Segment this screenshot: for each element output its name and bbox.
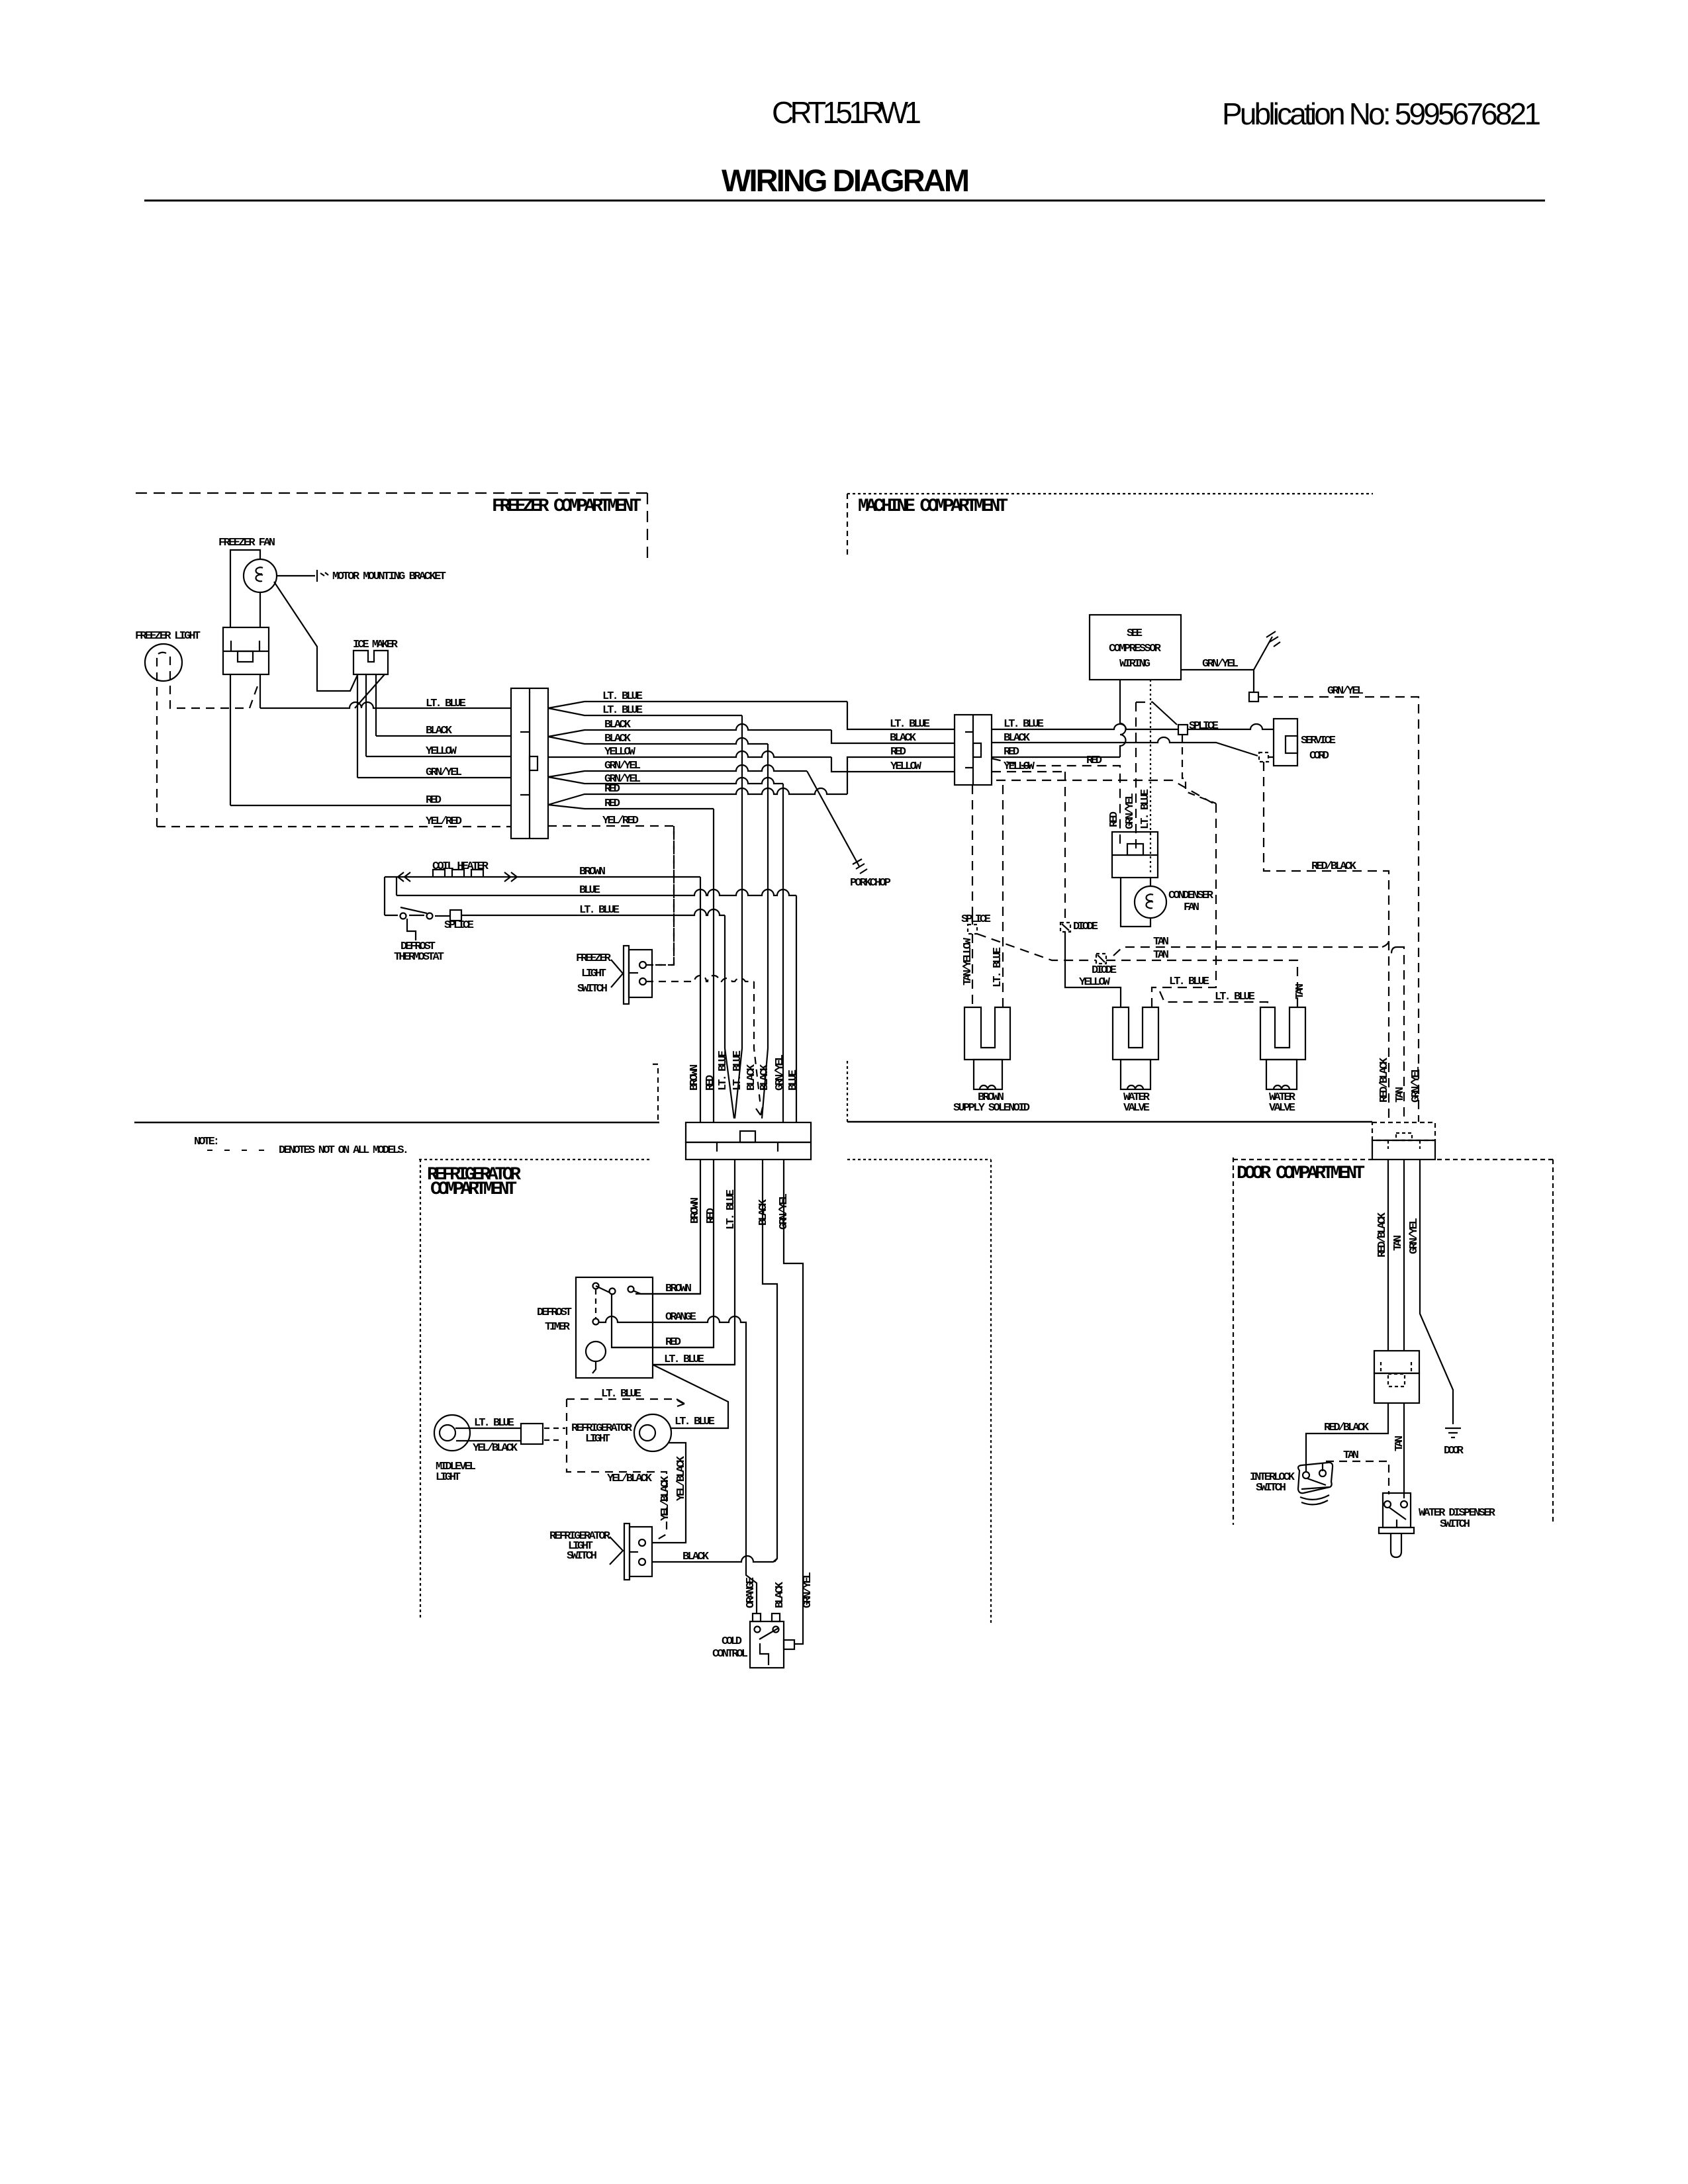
trunk TAN door	[1403, 1160, 1405, 1351]
trunk GRN/YEL vertical	[782, 784, 784, 1122]
trunk BROWN below J2	[635, 1160, 700, 1294]
svg-text:TAN: TAN	[1393, 1435, 1406, 1451]
coil heater element humps	[433, 870, 483, 877]
trunk RED below J2	[612, 1160, 714, 1347]
interlock switch body	[1298, 1463, 1333, 1493]
wire BLACK freezer	[376, 735, 511, 737]
freezer fan motor outline	[230, 550, 260, 627]
dashed tan/yellow from connector	[972, 785, 973, 925]
defrost timer box	[576, 1277, 653, 1378]
freezer light switch terminals	[639, 962, 646, 968]
machine compartment left lower stub	[847, 1061, 848, 1122]
dashed lt blue trunk to valve1	[1152, 803, 1216, 1007]
trunk LT.BLUE b vertical	[735, 715, 742, 1118]
wire YELLOW diode branch	[1064, 772, 1066, 921]
cold control box	[750, 1621, 784, 1668]
wire yellow below diode to valve	[1065, 932, 1121, 1007]
svg-text:RED/BLACK: RED/BLACK	[1324, 1422, 1370, 1434]
freezer light switch pointer	[611, 960, 623, 987]
freezer light lead yel/red upper	[170, 657, 258, 708]
dashed not-on-all-models outline	[567, 1399, 667, 1541]
water valve 1 body	[1113, 1007, 1158, 1060]
porkchop ground hash marks	[853, 859, 867, 874]
title rule	[144, 200, 1545, 202]
freezer light bulb circle	[145, 644, 182, 681]
wire GRN/YEL freezer	[357, 777, 511, 778]
freezer compartment bottom solid line	[134, 1122, 659, 1124]
cold control contacts	[755, 1627, 761, 1633]
grn/yel splice drop	[1253, 670, 1254, 692]
motor mounting bracket hash marks	[320, 572, 328, 576]
midlevel light	[434, 1415, 470, 1451]
dashed GRN/YEL compressor	[1136, 702, 1152, 852]
ice maker pin 3	[375, 674, 377, 736]
wire GRN/YEL dashed to door	[1258, 697, 1419, 1122]
wire step YELLOW freezer to machine	[831, 757, 955, 772]
door compartment top border right segment	[1437, 1159, 1553, 1160]
splice tan/yellow square	[968, 925, 977, 934]
door lower connector	[1374, 1351, 1419, 1373]
wire LT.BLUE machine	[992, 724, 1274, 729]
freezer compartment right border stub	[647, 493, 648, 560]
svg-text:SWITCH: SWITCH	[1256, 1482, 1286, 1494]
splice square grn/yel	[1249, 692, 1258, 702]
refrigerator compartment left border	[420, 1160, 421, 1619]
refrigerator compartment right border	[990, 1160, 992, 1623]
water dispenser switch body	[1383, 1493, 1411, 1527]
wire YEL/RED dashed to connector	[157, 826, 511, 827]
refrigerator compartment top border right segment	[847, 1159, 991, 1160]
trunk BLUE vertical	[796, 895, 797, 1122]
splice diagonal	[1152, 702, 1177, 725]
trunk GRN/YEL below J2 with jog	[784, 1160, 803, 1644]
door compartment left border	[1233, 1158, 1234, 1525]
door ground symbol	[1445, 1428, 1461, 1437]
wire BLUE	[397, 889, 796, 895]
door compartment right border	[1552, 1160, 1554, 1522]
trunk RED vertical	[713, 809, 714, 1122]
trunk RED/BLACK door	[1387, 1160, 1389, 1351]
coil heater chevrons left	[398, 872, 410, 882]
wire LT. BLUE freezer	[260, 702, 511, 708]
connector J1 body	[511, 688, 548, 839]
machine compartment top border	[847, 493, 1373, 494]
freezer light lead yel/red lower	[156, 658, 158, 827]
wire step BLACK freezer to machine	[831, 730, 955, 743]
trunk LT.BLUE below J2	[653, 1160, 735, 1365]
dashed lt blue from connector	[996, 780, 1213, 803]
compressor relay box	[1112, 832, 1158, 878]
wire RED/BLACK to interlock	[1306, 1403, 1388, 1471]
cold control capillary	[760, 1643, 769, 1665]
freezer light switch lead top	[646, 964, 673, 966]
dashed lt blue branch to valve2	[1160, 991, 1268, 1007]
freezer light switch plate	[624, 946, 629, 1004]
refrigerator light switch plate	[624, 1524, 630, 1580]
coil heater wire BROWN	[385, 877, 700, 915]
svg-text:DOOR: DOOR	[1444, 1445, 1464, 1457]
freezer light socket body	[223, 627, 269, 674]
freezer compartment bottom-right stub	[653, 1064, 658, 1122]
wire LT. BLUE defrost	[385, 909, 725, 916]
defrost timer motor circle	[586, 1342, 606, 1361]
chevron LT. BLUE pair	[548, 702, 847, 715]
wire LT. BLUE into timer	[653, 1364, 735, 1365]
wire RED freezer	[230, 805, 511, 806]
freezer light switch body	[629, 950, 652, 997]
brown supply solenoid body	[964, 1007, 1010, 1060]
ice maker pin 4 diagonal	[355, 674, 385, 708]
condenser fan motor legs	[1121, 878, 1150, 927]
chevron BLACK pair	[548, 724, 831, 744]
ice maker body	[353, 651, 388, 674]
splice square on lt blue	[450, 910, 461, 921]
wire RED machine	[992, 756, 1120, 758]
compressor lead 2	[1150, 680, 1151, 874]
see compressor wiring box	[1090, 615, 1181, 680]
cold control pins	[753, 1614, 761, 1621]
trunk GRN/YEL door	[1420, 1160, 1453, 1424]
defrost timer contact 3	[628, 1287, 634, 1293]
connector J3 body	[955, 715, 992, 785]
coil heater chevrons right	[504, 872, 517, 882]
trunk BLACK b vertical	[762, 744, 768, 1118]
trunk YEL/RED vertical	[673, 826, 675, 965]
dashed from splice to diode2 tan	[977, 934, 1297, 1007]
wire BLACK machine	[992, 737, 1274, 757]
freezer compartment top border	[136, 492, 647, 494]
water dispenser plunger	[1391, 1533, 1401, 1557]
defrost timer cam contact	[593, 1319, 599, 1325]
machine compartment left border stub	[847, 494, 848, 557]
connector J2 body	[686, 1122, 811, 1142]
refrigerator light switch body	[630, 1527, 652, 1576]
motor mounting bracket lead	[277, 570, 317, 582]
wire YEL/RED dashed right of J1	[548, 826, 674, 965]
midlevel connector	[521, 1424, 543, 1444]
freezer fan motor circle	[244, 559, 277, 592]
water dispenser flange	[1379, 1527, 1414, 1533]
svg-text:TAN: TAN	[1343, 1449, 1359, 1462]
wire GRN/YEL diagonal to porkchop	[807, 771, 859, 866]
TAN dashed wire 1 to door	[1113, 947, 1404, 1122]
dashed LT. BLUE arrow	[567, 1399, 682, 1403]
defrost timer contact 2	[610, 1289, 616, 1295]
compressor lead 1	[1120, 680, 1126, 757]
wire TAN interlock to dispenser	[1323, 1461, 1389, 1494]
ice maker pin 2	[365, 674, 367, 756]
defrost timer arm	[596, 1286, 610, 1293]
service cord connector square	[1259, 752, 1268, 762]
wire RED into timer	[612, 1294, 714, 1347]
machine compartment bottom line	[847, 1121, 1372, 1123]
chevron GRN/YEL pair	[548, 765, 807, 784]
wire BROWN into timer	[641, 1293, 700, 1295]
condenser fan coil	[1146, 894, 1153, 908]
wire ORANGE from timer	[599, 1316, 757, 1614]
wire freezer fan to ice maker diagonal	[274, 582, 357, 691]
trunk LT.BLUE a vertical	[725, 915, 734, 1118]
defrost timer pivot contact	[593, 1283, 599, 1289]
wire TAN to dispenser	[1403, 1403, 1405, 1498]
refrigerator compartment top border left segment	[419, 1159, 649, 1160]
diode 1 square	[1060, 923, 1070, 932]
defrost thermostat contacts	[400, 913, 406, 919]
wire socket to red	[230, 674, 231, 805]
compressor grn/yel wire	[1181, 637, 1272, 670]
wire BLACK from switch	[652, 1556, 777, 1562]
wire step LT.BLUE freezer to machine	[847, 702, 955, 729]
chevron RED pair	[548, 788, 847, 809]
dashed tan/yellow to solenoid	[972, 934, 973, 1007]
defrost thermostat capillary	[407, 919, 416, 940]
svg-text:RED/BLACK: RED/BLACK	[1376, 1212, 1389, 1257]
splice square on lt blue	[1178, 725, 1188, 735]
svg-text:TAN: TAN	[1392, 1235, 1405, 1251]
wire socket to lt blue	[259, 674, 261, 708]
compressor ground hash marks	[1266, 631, 1280, 647]
trunk BROWN vertical	[700, 877, 701, 1122]
freezer light filament	[158, 653, 166, 654]
water valve 2 body	[1260, 1007, 1305, 1060]
service cord body	[1274, 719, 1297, 766]
diode 2 square	[1096, 954, 1106, 964]
splice down dashes	[1182, 735, 1216, 803]
dashed RED compressor	[992, 758, 1120, 845]
door connector upper dashed part	[1372, 1122, 1435, 1140]
cold control side terminal	[784, 1640, 794, 1649]
svg-text:SWITCH: SWITCH	[1440, 1518, 1470, 1531]
wire step RED freezer to machine	[847, 757, 955, 794]
wire YELLOW machine	[992, 771, 1065, 772]
wire YELLOW freezer	[366, 756, 511, 757]
refrigerator light	[634, 1414, 671, 1451]
interlock terminals	[1303, 1472, 1309, 1479]
ice maker pin 1	[357, 674, 358, 778]
refrigerator light lead yel/black	[652, 1443, 686, 1543]
trunk BLACK dashed vertical with arrow	[754, 981, 761, 1107]
condenser fan circle	[1135, 886, 1166, 918]
freezer fan coil symbol	[256, 567, 263, 581]
freezer light switch lead bottom dashed black	[646, 976, 754, 981]
wire LT. BLUE diagonal to refrigerator light	[653, 1365, 728, 1428]
door compartment top border left segment	[1233, 1159, 1372, 1160]
dashed lt blue to solenoid	[1002, 785, 1004, 1007]
trunk BLACK below J2 with jog	[763, 1160, 777, 1562]
wire YELLOW to machine	[548, 751, 831, 757]
svg-text:GRN/YEL: GRN/YEL	[1408, 1218, 1421, 1254]
defrost timer inner dashes	[595, 1289, 596, 1318]
midlevel light wires	[455, 1428, 521, 1441]
refrigerator light switch pointer	[610, 1537, 623, 1565]
door connector lower solid part	[1372, 1140, 1435, 1160]
RED/BLACK dashed route	[1264, 762, 1389, 1122]
